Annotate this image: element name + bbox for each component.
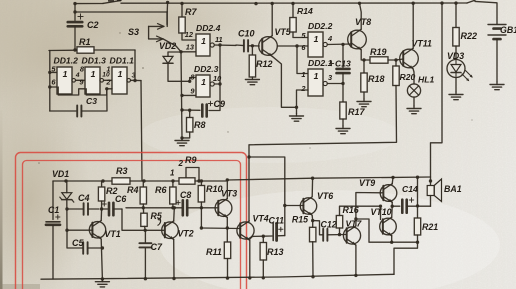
svg-text:DD2.2: DD2.2: [308, 21, 333, 31]
svg-text:VD2: VD2: [159, 41, 176, 51]
capacitor C11: [263, 235, 272, 237]
resistor R18: [363, 60, 365, 73]
logic gate DD2.1: [308, 69, 323, 96]
svg-text:VT2: VT2: [178, 229, 194, 239]
gate DD2.1 output bubble pin 3: [323, 81, 327, 85]
wire VT2 emitter to ground rail: [173, 239, 175, 278]
capacitor C3 feedback: [50, 110, 76, 112]
svg-text:R22: R22: [461, 31, 478, 41]
svg-text:1: 1: [201, 36, 206, 46]
speaker BA1: [427, 186, 434, 196]
wire C5 branch: [67, 230, 83, 248]
wire pin5 stub: [50, 71, 57, 73]
svg-text:C5: C5: [72, 238, 84, 248]
svg-text:13: 13: [186, 43, 195, 52]
ground under VT1: [101, 279, 103, 282]
wire lamp to ground: [413, 97, 415, 106]
wire output node line with C14: [392, 205, 400, 207]
svg-text:HL1: HL1: [418, 75, 434, 85]
logic gate DD1.2: [57, 67, 72, 94]
wire VD1 cathode down to VT1 base: [66, 200, 68, 231]
wire R16 top to VT10 base: [340, 206, 381, 215]
wire S3 bottom pole to junction: [163, 39, 181, 52]
wire VT2 collector riser: [173, 208, 176, 221]
wire VD2 cathode to pin8: [168, 63, 196, 81]
red highlight rectangle inner: [23, 161, 241, 289]
svg-text:BA1: BA1: [444, 184, 462, 194]
transistor VT6: [300, 198, 316, 214]
resistor R11: [226, 228, 228, 242]
wire DD1.2 out to DD1.3: [76, 79, 86, 81]
wire VT8 collector to rail: [360, 3, 362, 29]
resistor R7: [181, 4, 183, 18]
svg-text:C13: C13: [335, 59, 351, 69]
svg-text:R4: R4: [127, 185, 139, 195]
resistor R3: [112, 178, 130, 184]
svg-text:1: 1: [91, 69, 96, 79]
svg-text:C8: C8: [180, 190, 191, 200]
svg-text:2: 2: [300, 84, 306, 93]
R5 wiper arrow: [158, 218, 161, 226]
zener diode VD1: [66, 181, 68, 193]
svg-text:C4: C4: [78, 193, 90, 203]
ground under DD2.1: [296, 114, 298, 117]
gate DD1.1 output bubble pin 3: [127, 79, 131, 83]
resistor R10: [200, 181, 202, 186]
capacitor C1: [52, 181, 54, 220]
gate DD2.2 output bubble pin 4: [323, 42, 327, 46]
wire C1 top to rail: [53, 180, 67, 182]
svg-text:VT8: VT8: [355, 17, 371, 27]
transistor VT11: [400, 49, 419, 68]
wire VT10 collector riser to C14 line: [391, 206, 394, 217]
wire DD2.4 out to C10: [214, 44, 236, 46]
svg-text:4: 4: [327, 34, 332, 43]
wire rail2 down to S3 pole: [166, 12, 168, 27]
svg-text:1: 1: [106, 64, 110, 73]
svg-text:12: 12: [185, 30, 194, 39]
svg-text:R17: R17: [348, 107, 366, 117]
svg-text:R18: R18: [368, 74, 385, 84]
gate DD2.3 output bubble pin 10: [210, 82, 214, 86]
capacitor C7: [144, 230, 146, 242]
svg-text:VT1: VT1: [105, 229, 121, 239]
svg-text:2: 2: [178, 159, 184, 168]
wire R5 bottom to bus: [144, 226, 147, 230]
resistor R12: [251, 46, 253, 55]
resistor R14: [292, 4, 294, 18]
svg-text:DD1.2: DD1.2: [54, 56, 79, 66]
wire branch to VT6 base and C11: [249, 157, 285, 236]
svg-text:R14: R14: [297, 6, 313, 16]
capacitor C2: [74, 4, 76, 21]
wire VT1 collector riser: [100, 209, 102, 221]
LED VD3: [447, 60, 465, 78]
ground under GB1: [496, 82, 498, 85]
wire DD2.2 out to VT8 base: [327, 43, 351, 46]
wire VT6 base stub: [285, 205, 304, 207]
wire DD1 feedback left vertical: [49, 51, 51, 112]
transistor VT4: [237, 222, 254, 239]
wire speaker bottom to output node: [430, 196, 432, 207]
wire VT7 collector riser to VT9 base: [356, 193, 382, 226]
wire VT11 emitter to lamp: [412, 69, 415, 84]
wire DD1.1 output node: [131, 79, 142, 81]
svg-text:1: 1: [314, 34, 319, 44]
resistor R6: [172, 181, 174, 187]
wire battery to ground: [496, 39, 498, 82]
svg-text:DD2.4: DD2.4: [196, 23, 221, 33]
svg-text:1: 1: [63, 69, 68, 79]
svg-text:2: 2: [105, 77, 111, 86]
wire DD2.1 out to C13 node: [327, 83, 343, 85]
transistor VT9: [380, 185, 397, 202]
logic gate DD2.2: [308, 32, 323, 57]
svg-text:11: 11: [215, 35, 223, 44]
ground under R17: [342, 126, 344, 129]
svg-text:C1: C1: [48, 205, 59, 215]
transistor VT7: [343, 227, 360, 244]
ground under VD3: [455, 92, 457, 95]
ground under R18: [363, 99, 365, 102]
svg-text:VT3: VT3: [221, 189, 237, 199]
svg-text:C2: C2: [87, 20, 99, 30]
wire bottom ground rail: [41, 274, 394, 279]
resistor R20: [393, 66, 399, 86]
resistor R2: [101, 181, 103, 187]
capacitor C9: [182, 109, 200, 111]
wire VT5 collector node to DD2.2 pin6: [278, 45, 309, 47]
resistor R19: [370, 57, 388, 63]
wire main vertical to ground: [181, 52, 182, 138]
wire R6 bottom to line B: [172, 204, 174, 208]
svg-text:VT10: VT10: [371, 207, 392, 217]
wire DD2.1 pin1 tie: [297, 46, 308, 74]
svg-text:C9: C9: [214, 99, 226, 109]
wire VT10 emitter drop: [391, 236, 393, 243]
switch S1 cut label: [108, 0, 121, 2]
gate DD1.2 output bubble pin 4: [72, 79, 76, 83]
wire R10 bottom to emitter bus: [200, 202, 202, 228]
resistor R1: [49, 49, 77, 51]
wire long rail continuation to output: [227, 177, 431, 180]
svg-text:10: 10: [213, 74, 222, 83]
wire top supply rail: [75, 2, 103, 4]
wire VT1 base feed: [67, 229, 93, 231]
S3 throw arrow top: [149, 25, 164, 27]
paper light areas: [160, 190, 500, 289]
logic gate DD1.1: [112, 67, 127, 94]
svg-text:R3: R3: [116, 166, 128, 176]
svg-text:DD2.3: DD2.3: [194, 64, 219, 74]
logic gate DD2.3: [196, 75, 210, 97]
wire R21 riser from rail: [417, 177, 419, 206]
svg-text:R19: R19: [370, 47, 387, 57]
capacitor C6: [102, 208, 108, 210]
red highlight rectangle outer: [16, 153, 247, 289]
battery GB1: [488, 24, 506, 26]
wire VT1 emitter to ground: [101, 239, 102, 279]
LED VD3 arrows: [462, 74, 469, 81]
svg-text:1: 1: [118, 69, 123, 79]
S3 throw arrow bottom: [149, 38, 163, 40]
resistor R9 with tap: [179, 178, 195, 184]
svg-text:C10: C10: [238, 29, 255, 39]
wire VT3 collector riser to rail: [226, 180, 228, 199]
svg-text:R6: R6: [155, 185, 167, 195]
wire node line B: [126, 207, 182, 209]
transistor VT5: [259, 37, 278, 56]
resistor R21: [417, 206, 419, 218]
resistor R13: [262, 236, 264, 242]
transistor VT3: [215, 200, 232, 217]
wire DD1.3 out to DD1.1: [104, 79, 113, 81]
resistor R22: [455, 3, 457, 27]
svg-text:R8: R8: [194, 120, 206, 130]
svg-text:VT5: VT5: [275, 27, 291, 37]
wire VT5 emitter to ground rail: [272, 56, 296, 107]
resistor R4: [142, 181, 144, 187]
wire VT9 emitter to VT10 base line: [391, 202, 393, 206]
resistor R16: [336, 216, 342, 229]
svg-text:VD3: VD3: [447, 51, 464, 61]
logic gate DD2.4: [196, 34, 210, 56]
svg-text:R15: R15: [292, 215, 308, 225]
svg-text:S3: S3: [128, 27, 139, 37]
ground under HL1: [413, 106, 415, 109]
resistor R17: [340, 102, 346, 119]
lamp HL1: [407, 84, 420, 97]
S3 node dot on top rail: [166, 1, 169, 4]
wire VT4 emitter drop: [249, 240, 251, 278]
ground under R12: [251, 77, 253, 80]
svg-text:C7: C7: [151, 242, 163, 252]
capacitor C13: [342, 44, 344, 67]
svg-text:C14: C14: [402, 184, 418, 194]
wire VD3 to ground: [455, 78, 457, 93]
svg-text:C3: C3: [86, 96, 97, 106]
svg-text:GB1: GB1: [500, 25, 516, 35]
resistor R15: [312, 221, 314, 228]
gate DD1.3 output bubble: [100, 79, 104, 83]
wire VT7 collector branch to output loop: [356, 219, 418, 242]
svg-text:DD2.1: DD2.1: [308, 58, 333, 68]
svg-text:R7: R7: [185, 7, 197, 17]
capacitor C8: [182, 200, 185, 215]
logic gate DD1.3: [85, 67, 100, 94]
wire R4 stem to R5: [142, 204, 144, 213]
wire VT7 emitter to bottom rail: [355, 245, 357, 275]
ground under VD2 rail: [181, 138, 183, 141]
transistor VT2: [162, 222, 179, 239]
scan left edge shadow: [0, 110, 3, 289]
capacitor C12: [313, 221, 323, 235]
wire bottom rail right rise: [394, 242, 418, 274]
capacitor C5: [82, 242, 84, 254]
wire DD1 bottom link two: [86, 89, 112, 95]
svg-text:R11: R11: [206, 247, 222, 257]
wire R20 down long run to VT4 collector: [249, 86, 397, 221]
wire to DD2.3 pin9: [182, 94, 196, 96]
capacitor C10: [236, 44, 244, 47]
wire DD1 bottom link one: [58, 87, 85, 95]
wire VT11 collector to rail: [412, 3, 414, 48]
diode VD2: [168, 52, 181, 56]
variable resistor R5: [141, 213, 147, 226]
wire VT4 emitter node to C11: [250, 236, 263, 239]
svg-text:C11: C11: [269, 216, 285, 226]
wire pin6 stub: [50, 86, 57, 88]
wire VT6 collector riser: [311, 178, 313, 196]
svg-text:R20: R20: [400, 72, 416, 82]
transistor VT8: [348, 30, 367, 49]
svg-text:DD1.1: DD1.1: [110, 56, 135, 66]
svg-text:R1: R1: [79, 37, 91, 47]
wire VT9 collector to rail: [391, 177, 394, 184]
S3 tail bracket: [148, 26, 150, 39]
svg-text:R12: R12: [256, 59, 273, 69]
wire inter-gate vertical: [219, 45, 221, 84]
transistor VT1: [89, 222, 105, 238]
transistor VT10: [380, 218, 397, 235]
svg-text:VT6: VT6: [317, 191, 333, 201]
gate DD2.4 output bubble pin 11: [210, 43, 214, 47]
wire R1 right leg down to output: [134, 50, 136, 81]
wire VT8 emitter node: [361, 50, 370, 60]
svg-text:VD1: VD1: [52, 169, 69, 179]
switch blade near battery: [467, 0, 475, 3]
wire VT6 emitter to R15: [311, 216, 314, 221]
wire long drop to speaker: [431, 3, 443, 185]
svg-text:R2: R2: [106, 186, 118, 196]
svg-text:VT11: VT11: [412, 39, 432, 49]
capacitor C4: [83, 203, 85, 215]
svg-text:R9: R9: [185, 155, 197, 165]
svg-text:1: 1: [314, 71, 319, 81]
wire second rail to S3: [75, 12, 167, 25]
svg-text:R13: R13: [267, 247, 284, 257]
svg-text:1: 1: [170, 169, 175, 178]
wire bottom-left top rail: [66, 180, 112, 182]
wire node line A left: [67, 208, 83, 210]
node dots on rails: [73, 2, 76, 5]
svg-text:C12: C12: [321, 220, 337, 230]
wire output down to oscillator rail: [141, 81, 142, 181]
wire VT3 emitter bus to VT4 base: [226, 217, 228, 228]
svg-text:1: 1: [301, 70, 305, 79]
svg-text:R21: R21: [422, 222, 438, 232]
switch S1 blade on top rail: [103, 0, 121, 3]
capacitor C14: [401, 200, 404, 213]
resistor R8: [188, 109, 191, 112]
paper specks: [38, 32, 472, 164]
wire VT5 collector to rail: [271, 4, 273, 36]
wire line A down to VT2 base bus: [122, 209, 164, 230]
svg-text:DD1.3: DD1.3: [82, 56, 107, 66]
wire DD2.1 pin2 to ground: [297, 90, 309, 114]
wire junction to DD2.4 pin13: [181, 51, 196, 53]
svg-text:VT7: VT7: [346, 219, 363, 229]
wire VT10 base drop: [380, 206, 382, 219]
svg-text:1: 1: [201, 77, 206, 87]
svg-text:VT4: VT4: [253, 214, 269, 224]
svg-text:VT9: VT9: [359, 178, 375, 188]
